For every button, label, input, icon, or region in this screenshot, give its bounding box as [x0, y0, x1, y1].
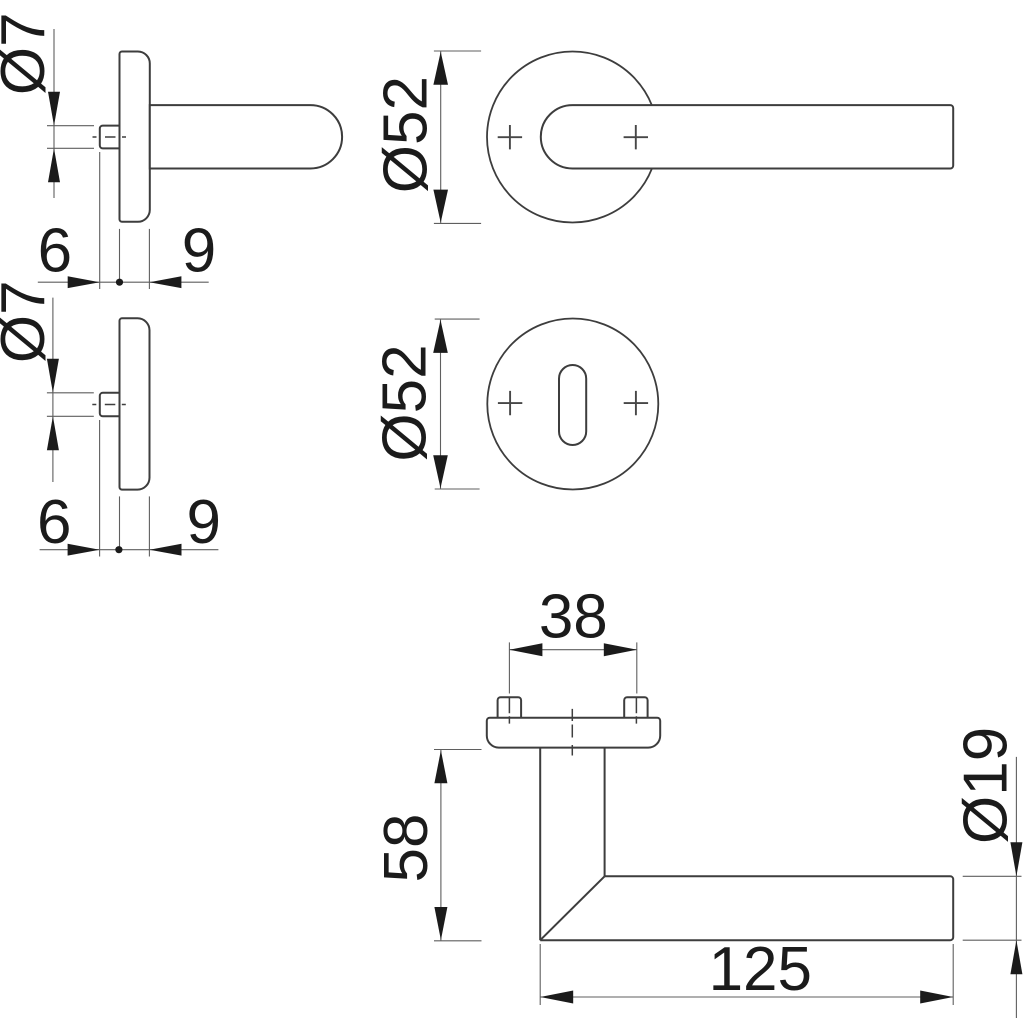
- figure 2 node dot between 6 and 9: [115, 546, 122, 553]
- figure 5 extension line screw right: [636, 642, 638, 693]
- figure 4 extension tick bottom: [435, 488, 480, 490]
- svg-text:Ø19: Ø19: [952, 727, 1021, 844]
- svg-text:9: 9: [187, 488, 221, 557]
- figure 4 screw mark left: [498, 391, 522, 415]
- figure 2 Ø7 arrow up: [47, 416, 59, 450]
- figure 4 Ø52 arrow up: [433, 320, 448, 353]
- figure 3 Ø52 arrow up: [433, 52, 448, 85]
- figure 1 extension line rose back: [148, 229, 150, 289]
- figure 3 extension tick top: [434, 50, 481, 52]
- figure 5 arrow 58 down: [434, 907, 447, 940]
- figure 1 node dot between 6 and 9: [116, 279, 123, 286]
- figure 5 extension line grip front: [539, 944, 541, 1005]
- figure 5 arrow 125 left: [540, 991, 573, 1004]
- figure 3 Ø52 arrow down: [433, 190, 448, 223]
- svg-text:Ø52: Ø52: [371, 344, 440, 461]
- figure 1 Ø7 extension tick bottom: [47, 147, 94, 149]
- figure 2 spindle centerline: [92, 404, 127, 406]
- figure 5 Ø19 arrow up: [1010, 940, 1022, 974]
- figure 1 Ø7 arrow up: [48, 148, 60, 182]
- figure 5 extension tick grip top: [963, 875, 1022, 877]
- figure 5 neck right edge: [604, 748, 606, 877]
- figure 2 arrow 9: [150, 544, 182, 556]
- figure 1 Ø7 arrow down: [48, 92, 60, 126]
- figure 5 grip outline: [540, 876, 953, 940]
- figure 5 rose centerline: [571, 709, 573, 756]
- figure 4 dimension line Ø52: [440, 319, 442, 489]
- figure 2 extension line boss face: [99, 420, 101, 557]
- figure 2 extension line rose front: [119, 496, 121, 549]
- figure 5 dimension line Ø19: [1015, 757, 1017, 1018]
- figure 2 Ø7 extension tick bottom: [47, 415, 94, 417]
- figure 1 extension line boss face: [99, 152, 101, 289]
- svg-text:58: 58: [372, 814, 441, 883]
- figure 5 neck left edge: [539, 748, 541, 941]
- figure 4 extension tick top: [435, 318, 480, 320]
- figure 5 extension line grip end: [952, 944, 954, 1005]
- figure 5 arrow 38 right: [604, 643, 637, 656]
- figure 1 dimension line for Ø7: [53, 29, 55, 198]
- figure 5 arrow 38 left: [509, 643, 542, 656]
- figure 5 screw boss right: [624, 697, 647, 718]
- figure 4 rose disc: [487, 319, 658, 490]
- svg-text:6: 6: [37, 488, 71, 557]
- figure 2 arrow 6: [68, 544, 100, 556]
- figure 5 dimension line 38: [509, 649, 636, 651]
- figure 1 spindle centerline: [93, 136, 128, 138]
- figure 1 extension line rose front: [119, 229, 121, 282]
- figure 1 arrow 6: [68, 276, 100, 288]
- figure 2 dimension line for Ø7: [52, 298, 54, 482]
- figure 1 spindle boss: [100, 126, 120, 149]
- figure 3 screw mark right: [624, 125, 648, 149]
- figure 1 Ø7 extension tick top: [47, 125, 94, 127]
- figure 5 miter joint line: [540, 876, 604, 940]
- svg-text:38: 38: [539, 583, 608, 652]
- figure 2 spindle boss: [100, 393, 120, 417]
- figure 2 Ø7 extension tick top: [47, 392, 94, 394]
- svg-text:Ø7: Ø7: [0, 280, 58, 363]
- figure 5 Ø19 arrow down: [1010, 842, 1022, 876]
- figure 2 rose side profile: [120, 318, 150, 489]
- figure 5 extension line screw left: [508, 642, 510, 693]
- figure 5 dimension line 58: [440, 750, 442, 941]
- figure 5 rose edge view: [487, 718, 660, 748]
- figure 2 Ø7 arrow down: [47, 359, 59, 393]
- figure 3 rose disc: [487, 52, 658, 223]
- figure 1 arrow 9: [149, 276, 181, 288]
- figure 3 lever grip front view: [541, 105, 953, 168]
- figure 5 arrow 125 right: [920, 991, 953, 1004]
- figure 5 arrow 58 up: [434, 750, 447, 783]
- figure 1 dimension line 6 and 9: [38, 281, 209, 283]
- figure 5 extension tick grip underside: [963, 939, 1022, 941]
- figure 4 Ø52 arrow down: [433, 455, 448, 488]
- figure 5 extension tick grip bottom: [434, 940, 482, 942]
- figure 5 screw centerline right: [635, 697, 637, 724]
- figure 2 dimension line 6 and 9: [40, 549, 219, 551]
- svg-text:Ø52: Ø52: [372, 76, 441, 193]
- figure 3 extension tick bottom: [434, 222, 481, 224]
- svg-text:6: 6: [38, 216, 72, 285]
- figure 1 rose side profile: [120, 52, 150, 222]
- figure 5 screw centerline left: [508, 697, 510, 724]
- figure 1 lever grip side view: [150, 105, 342, 168]
- svg-text:Ø7: Ø7: [0, 12, 58, 95]
- figure 5 dimension line 125: [540, 996, 953, 998]
- svg-text:125: 125: [709, 935, 812, 1004]
- figure 5 screw boss left: [498, 697, 521, 718]
- svg-text:9: 9: [182, 216, 216, 285]
- figure 2 extension line rose back: [148, 496, 150, 556]
- figure 4 keyhole slot: [559, 365, 586, 445]
- figure 3 screw mark left: [498, 125, 522, 149]
- figure 5 extension tick rose underside: [434, 749, 482, 751]
- figure 3 dimension line Ø52: [440, 51, 442, 223]
- figure 4 screw mark right: [624, 391, 648, 415]
